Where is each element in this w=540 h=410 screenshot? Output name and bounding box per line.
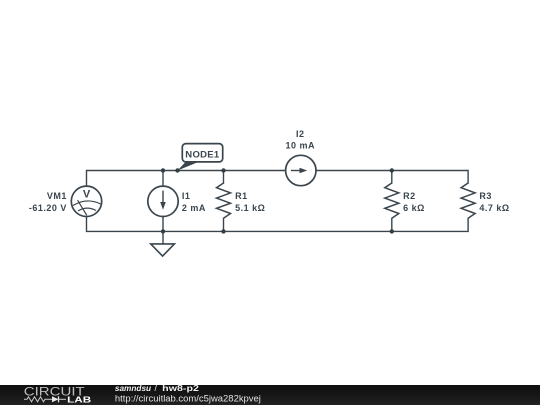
resistor R1 — [217, 183, 231, 218]
node dot R1 bottom — [221, 229, 225, 233]
resistor R3 — [461, 183, 475, 218]
logo diode symbol — [48, 396, 66, 402]
current source I1 — [148, 186, 178, 216]
wire I1 top stub — [162, 171, 164, 187]
svg-text:R2: R2 — [403, 191, 416, 201]
wire R1 bottom stub — [223, 218, 225, 231]
svg-text:5.1 kΩ: 5.1 kΩ — [235, 203, 265, 213]
svg-text:I1: I1 — [182, 191, 191, 201]
svg-text:R3: R3 — [479, 191, 492, 201]
svg-text:I2: I2 — [296, 129, 305, 139]
svg-text:http://circuitlab.com/c5jwa282: http://circuitlab.com/c5jwa282kpvej — [115, 394, 261, 404]
svg-text:hw8-p2: hw8-p2 — [162, 383, 199, 393]
logo resistor symbol — [24, 397, 48, 402]
wire I1 bottom stub — [162, 216, 164, 231]
svg-text:2 mA: 2 mA — [182, 203, 206, 213]
node dot R2 top — [390, 168, 394, 172]
node dot I1 top — [161, 168, 165, 172]
svg-text:V: V — [83, 189, 91, 201]
node dot R1 top — [221, 168, 225, 172]
node NODE1 callout — [178, 144, 223, 171]
current source I2 — [286, 155, 316, 185]
wire top rail right segment — [316, 171, 468, 184]
node dot R2 bottom — [390, 229, 394, 233]
footer bar — [0, 385, 540, 405]
wire top rail left segment — [87, 171, 286, 187]
junction dots on top rail — [161, 168, 394, 233]
node dot I1 bottom / ground — [161, 229, 165, 233]
svg-text:VM1: VM1 — [47, 191, 67, 201]
wire ground stub — [162, 231, 164, 244]
wire R2 bottom stub — [391, 218, 393, 231]
svg-text:-61.20 V: -61.20 V — [29, 203, 67, 213]
resistor R2 — [385, 183, 399, 218]
wire bottom rail — [87, 216, 469, 231]
ground — [151, 244, 175, 256]
svg-text:samndsu: samndsu — [115, 383, 152, 393]
svg-text:LAB: LAB — [67, 394, 91, 404]
svg-text:R1: R1 — [235, 191, 248, 201]
node dot NODE1 tail — [175, 168, 179, 172]
voltmeter VM1 — [71, 186, 101, 216]
wire R2 top stub — [391, 171, 393, 184]
svg-text:4.7 kΩ: 4.7 kΩ — [479, 203, 509, 213]
svg-text:6 kΩ: 6 kΩ — [403, 203, 425, 213]
svg-text:10 mA: 10 mA — [285, 141, 315, 151]
wire R1 top stub — [223, 171, 225, 184]
svg-text:NODE1: NODE1 — [185, 149, 220, 160]
